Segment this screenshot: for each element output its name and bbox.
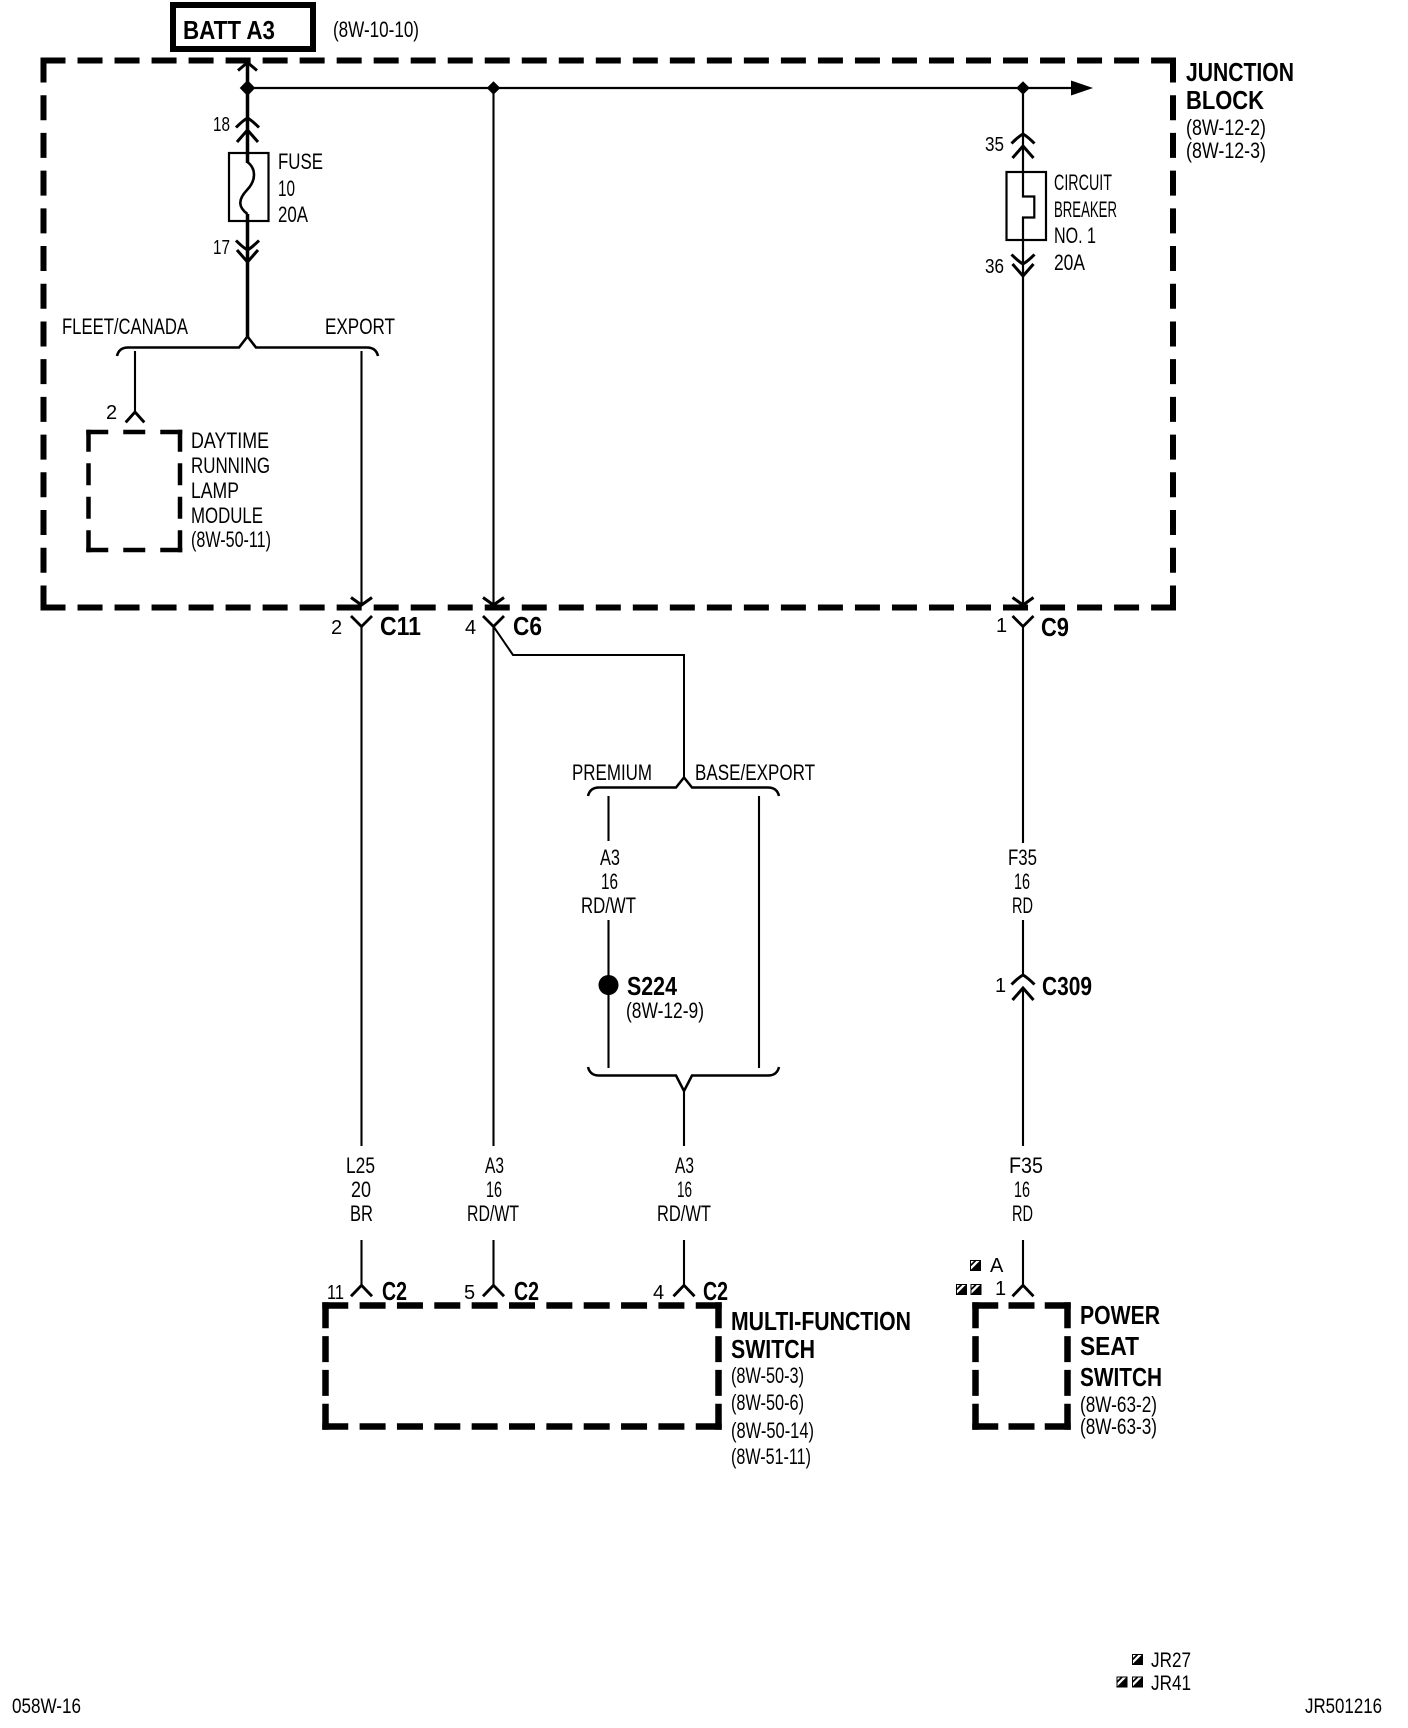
svg-text:BREAKER: BREAKER [1054, 197, 1117, 222]
svg-text:JR501216: JR501216 [1305, 1695, 1382, 1718]
svg-text:SEAT: SEAT [1080, 1331, 1139, 1361]
svg-text:(8W-50-6): (8W-50-6) [731, 1390, 804, 1415]
svg-text:A3: A3 [675, 1153, 694, 1178]
svg-text:RD/WT: RD/WT [581, 893, 636, 918]
svg-text:NO. 1: NO. 1 [1054, 223, 1096, 248]
svg-text:16: 16 [1014, 1177, 1030, 1202]
svg-text:36: 36 [985, 256, 1004, 278]
svg-text:MODULE: MODULE [191, 503, 263, 528]
svg-text:16: 16 [486, 1177, 502, 1202]
svg-text:(8W-51-11): (8W-51-11) [731, 1444, 811, 1469]
svg-text:1: 1 [995, 1278, 1006, 1300]
svg-text:SWITCH: SWITCH [731, 1334, 815, 1364]
svg-text:PREMIUM: PREMIUM [572, 760, 652, 785]
svg-text:C2: C2 [514, 1276, 539, 1306]
svg-text:(8W-10-10): (8W-10-10) [333, 17, 419, 42]
svg-text:FUSE: FUSE [278, 149, 323, 174]
svg-text:FLEET/CANADA: FLEET/CANADA [62, 314, 188, 339]
svg-text:2: 2 [331, 617, 342, 639]
svg-text:4: 4 [465, 617, 476, 639]
svg-text:RD/WT: RD/WT [657, 1201, 711, 1226]
svg-text:SWITCH: SWITCH [1080, 1362, 1162, 1392]
svg-text:20A: 20A [278, 202, 308, 227]
svg-text:POWER: POWER [1080, 1300, 1160, 1330]
svg-text:L25: L25 [346, 1153, 375, 1178]
svg-text:A3: A3 [485, 1153, 504, 1178]
svg-text:C9: C9 [1041, 612, 1069, 642]
svg-text:BR: BR [350, 1201, 373, 1226]
svg-text:20A: 20A [1054, 250, 1085, 275]
svg-text:LAMP: LAMP [191, 478, 239, 503]
svg-text:RD: RD [1012, 893, 1033, 918]
svg-text:DAYTIME: DAYTIME [191, 428, 269, 453]
svg-text:(8W-50-3): (8W-50-3) [731, 1363, 804, 1388]
svg-text:F35: F35 [1008, 845, 1037, 870]
svg-text:(8W-50-14): (8W-50-14) [731, 1418, 814, 1443]
svg-text:(8W-63-3): (8W-63-3) [1080, 1414, 1157, 1439]
svg-text:S224: S224 [627, 971, 677, 1001]
svg-text:4: 4 [653, 1282, 664, 1304]
svg-text:16: 16 [601, 869, 618, 894]
svg-text:BASE/EXPORT: BASE/EXPORT [695, 760, 815, 785]
svg-text:A3: A3 [600, 845, 620, 870]
svg-text:058W-16: 058W-16 [12, 1695, 81, 1718]
svg-text:35: 35 [985, 134, 1004, 156]
svg-text:5: 5 [464, 1282, 475, 1304]
svg-text:16: 16 [677, 1177, 692, 1202]
svg-text:RUNNING: RUNNING [191, 453, 270, 478]
svg-text:JR41: JR41 [1151, 1672, 1191, 1695]
svg-text:EXPORT: EXPORT [325, 314, 395, 339]
svg-text:C6: C6 [513, 611, 542, 641]
svg-text:11: 11 [327, 1282, 344, 1304]
svg-text:(8W-50-11): (8W-50-11) [191, 527, 271, 552]
svg-text:A: A [990, 1255, 1004, 1277]
svg-text:BLOCK: BLOCK [1186, 85, 1264, 115]
svg-text:10: 10 [278, 176, 295, 201]
svg-text:2: 2 [106, 402, 117, 424]
svg-text:(8W-12-9): (8W-12-9) [626, 998, 704, 1023]
svg-text:C309: C309 [1042, 971, 1092, 1001]
svg-text:18: 18 [213, 114, 230, 136]
svg-text:F35: F35 [1009, 1153, 1043, 1178]
svg-text:CIRCUIT: CIRCUIT [1054, 170, 1112, 195]
svg-text:BATT A3: BATT A3 [183, 15, 275, 45]
svg-text:JR27: JR27 [1151, 1649, 1191, 1672]
svg-text:RD: RD [1012, 1201, 1033, 1226]
svg-text:C2: C2 [703, 1276, 728, 1306]
svg-text:(8W-12-3): (8W-12-3) [1186, 138, 1266, 163]
svg-text:JUNCTION: JUNCTION [1186, 57, 1294, 87]
svg-text:MULTI-FUNCTION: MULTI-FUNCTION [731, 1306, 911, 1336]
svg-text:(8W-12-2): (8W-12-2) [1186, 115, 1266, 140]
svg-text:20: 20 [351, 1177, 371, 1202]
svg-text:C2: C2 [382, 1276, 407, 1306]
svg-text:17: 17 [213, 237, 230, 259]
svg-text:16: 16 [1014, 869, 1030, 894]
svg-text:1: 1 [996, 615, 1007, 637]
svg-text:C11: C11 [380, 611, 421, 641]
svg-text:RD/WT: RD/WT [467, 1201, 519, 1226]
svg-text:1: 1 [995, 975, 1006, 997]
